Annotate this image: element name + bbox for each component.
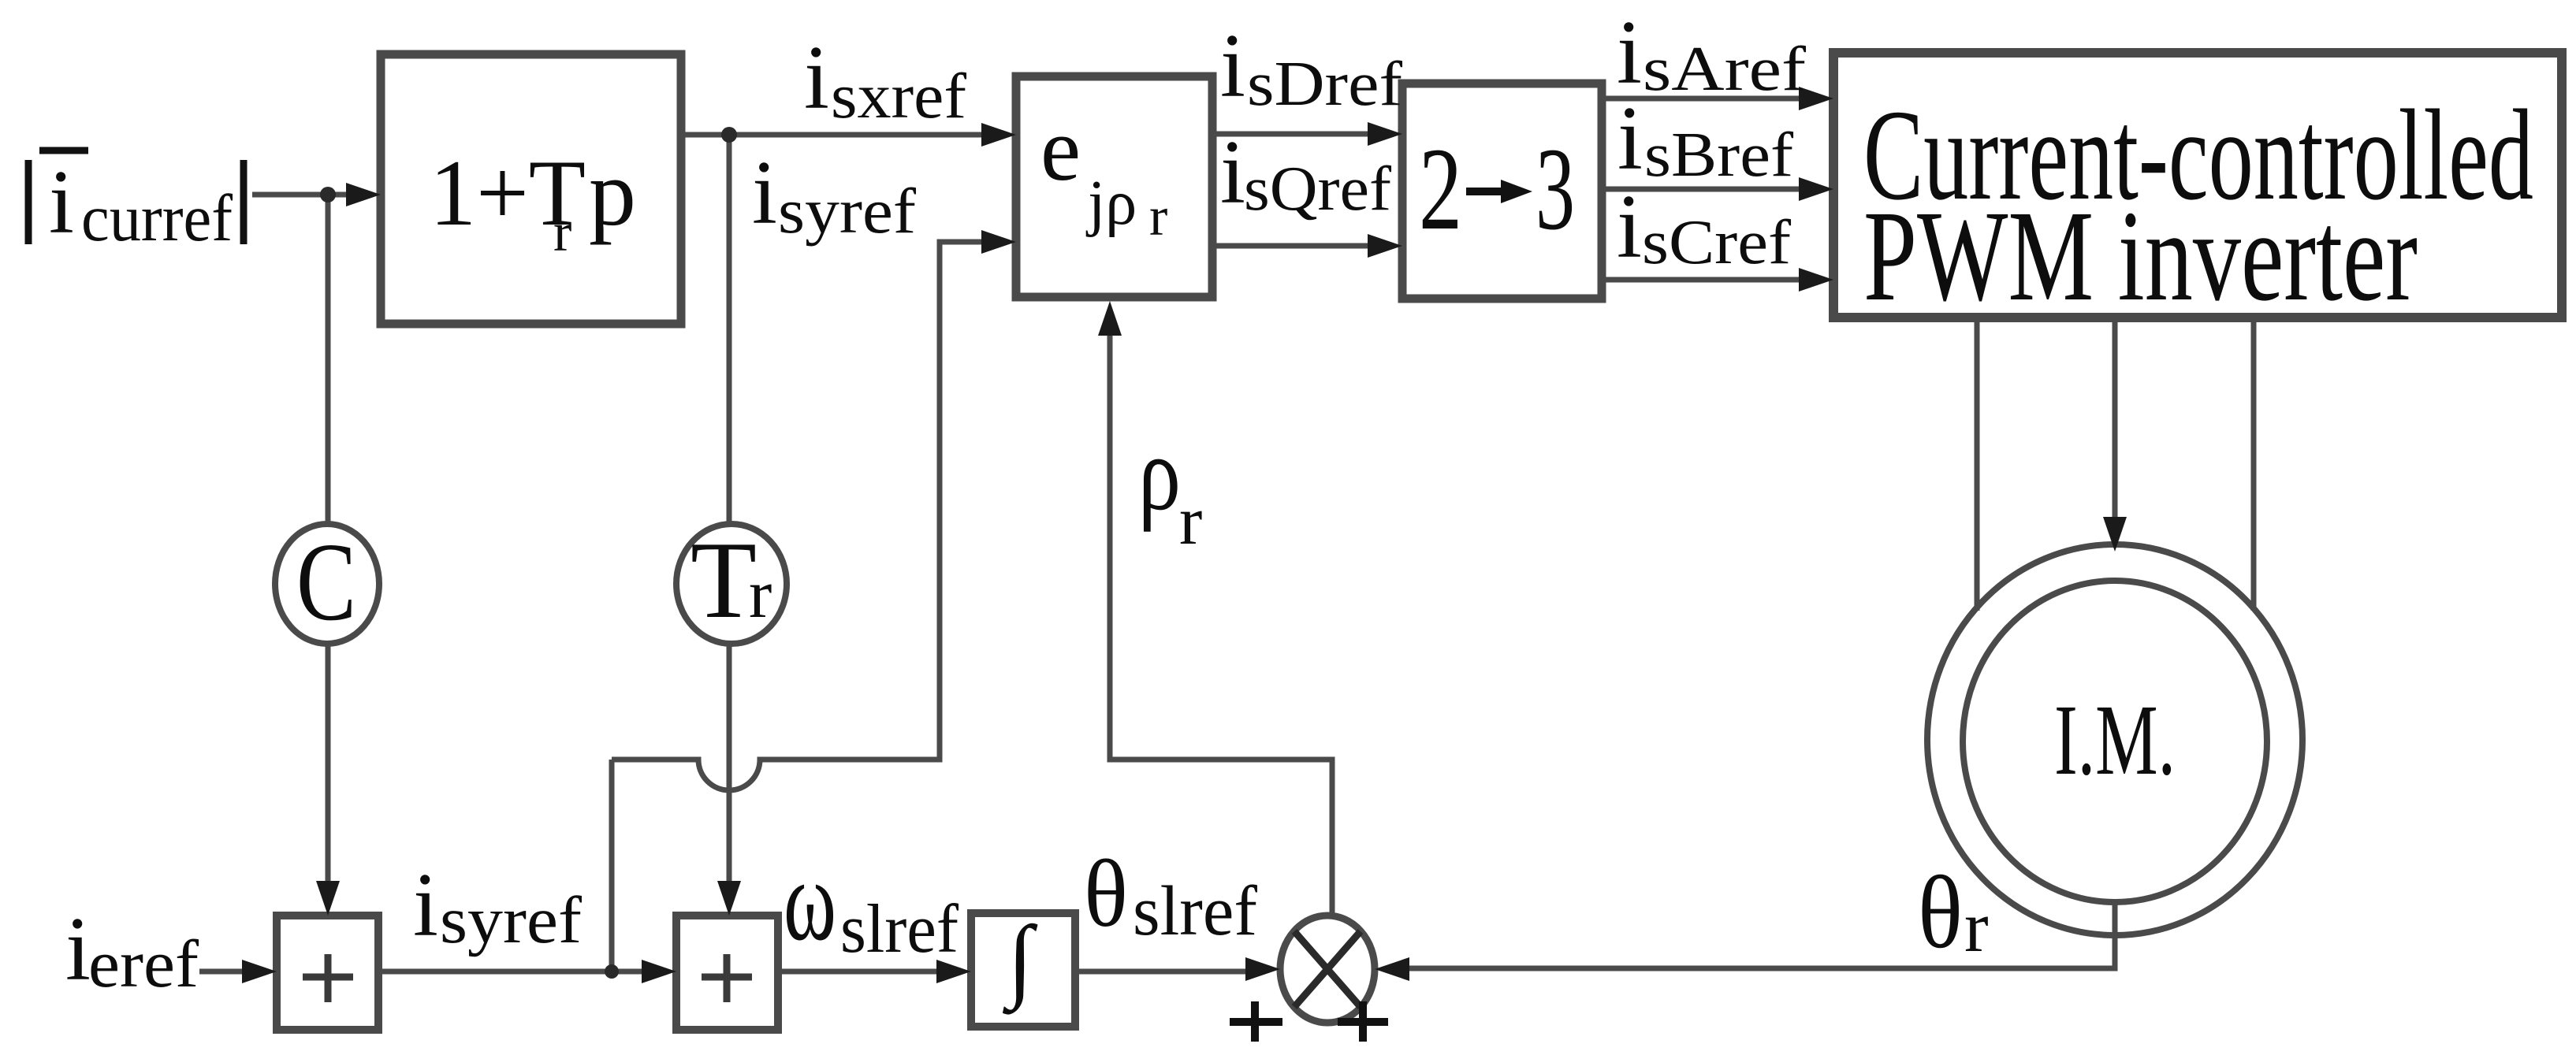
- svg-text:C: C: [296, 519, 356, 644]
- svg-text:sCref: sCref: [1642, 208, 1791, 277]
- svg-text:sxref: sxref: [831, 60, 967, 132]
- svg-text:jρ: jρ: [1085, 169, 1137, 238]
- svg-text:r: r: [1179, 483, 1202, 559]
- svg-text:θ: θ: [1918, 854, 1963, 970]
- svg-text:i: i: [1617, 88, 1643, 188]
- svg-text:3: 3: [1536, 124, 1575, 254]
- svg-text:e: e: [1040, 99, 1081, 199]
- svg-text:I.M.: I.M.: [2054, 684, 2176, 796]
- svg-text:r: r: [1964, 886, 1989, 967]
- svg-text:sQref: sQref: [1244, 154, 1391, 224]
- svg-text:∫: ∫: [1002, 907, 1038, 1015]
- svg-text:r: r: [749, 556, 772, 633]
- svg-text:i: i: [49, 152, 74, 252]
- svg-text:i: i: [1220, 16, 1245, 116]
- svg-text:eref: eref: [88, 926, 199, 1001]
- svg-text:i: i: [1220, 122, 1245, 222]
- svg-text:ρ: ρ: [1138, 415, 1181, 533]
- svg-text:r: r: [553, 202, 571, 263]
- svg-text:i: i: [65, 899, 91, 999]
- svg-text:PWM inverter: PWM inverter: [1863, 184, 2418, 328]
- svg-text:i: i: [1617, 2, 1642, 102]
- svg-text:sDref: sDref: [1247, 50, 1402, 119]
- svg-text:ω: ω: [784, 836, 836, 965]
- svg-text:syref: syref: [778, 175, 917, 247]
- svg-text:i: i: [413, 855, 438, 955]
- svg-text:sBref: sBref: [1644, 121, 1793, 190]
- svg-text:curref: curref: [81, 181, 233, 255]
- svg-text:i: i: [1617, 176, 1642, 277]
- svg-text:T: T: [691, 519, 757, 641]
- svg-text:θ: θ: [1084, 841, 1128, 947]
- svg-text:2: 2: [1419, 124, 1462, 254]
- svg-text:syref: syref: [440, 883, 583, 957]
- svg-text:sAref: sAref: [1643, 35, 1806, 104]
- svg-text:i: i: [752, 143, 777, 243]
- svg-text:i: i: [804, 28, 829, 128]
- svg-text:slref: slref: [840, 891, 959, 968]
- svg-text:p: p: [589, 140, 636, 245]
- svg-text:r: r: [1149, 187, 1167, 247]
- svg-text:slref: slref: [1133, 872, 1257, 950]
